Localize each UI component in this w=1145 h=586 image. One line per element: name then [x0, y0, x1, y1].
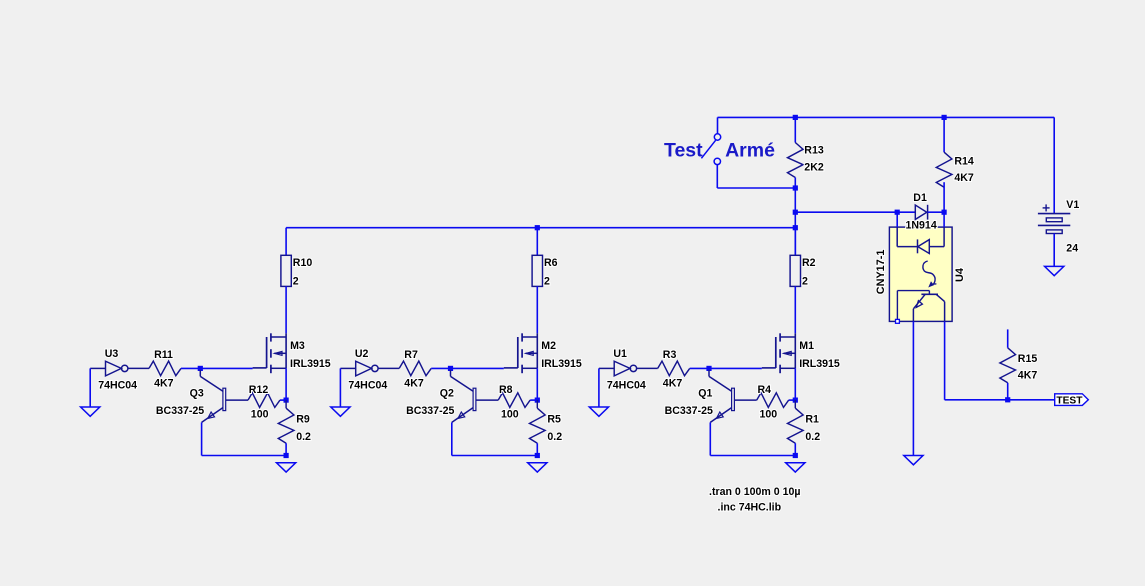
svg-text:BC337-25: BC337-25 [406, 405, 454, 417]
svg-text:100: 100 [251, 409, 269, 421]
svg-text:U3: U3 [105, 348, 119, 360]
svg-text:4K7: 4K7 [663, 377, 683, 389]
svg-text:R8: R8 [499, 384, 513, 396]
svg-text:R9: R9 [296, 414, 310, 426]
svg-text:D1: D1 [913, 192, 927, 204]
svg-text:Q3: Q3 [190, 388, 204, 400]
svg-text:4K7: 4K7 [154, 377, 174, 389]
svg-text:BC337-25: BC337-25 [665, 405, 713, 417]
svg-text:CNY17-1: CNY17-1 [875, 250, 887, 295]
svg-text:Test: Test [664, 140, 703, 162]
svg-text:IRL3915: IRL3915 [799, 358, 840, 370]
svg-text:IRL3915: IRL3915 [541, 358, 582, 370]
svg-text:V1: V1 [1066, 199, 1079, 211]
svg-text:24: 24 [1066, 243, 1078, 255]
svg-text:Q2: Q2 [440, 388, 454, 400]
svg-text:74HC04: 74HC04 [98, 380, 137, 392]
svg-text:0.2: 0.2 [547, 431, 562, 443]
svg-text:R12: R12 [249, 384, 269, 396]
svg-text:U1: U1 [613, 348, 627, 360]
svg-text:4K7: 4K7 [954, 172, 974, 184]
svg-text:R6: R6 [544, 257, 558, 269]
svg-text:U2: U2 [355, 348, 369, 360]
svg-text:74HC04: 74HC04 [348, 380, 387, 392]
svg-text:4K7: 4K7 [404, 377, 424, 389]
svg-text:0.2: 0.2 [296, 431, 311, 443]
svg-text:2K2: 2K2 [804, 162, 824, 174]
svg-text:M3: M3 [290, 340, 305, 352]
svg-text:1N914: 1N914 [906, 219, 937, 231]
svg-text:TEST: TEST [1056, 396, 1083, 407]
svg-text:R1: R1 [805, 414, 819, 426]
svg-text:M1: M1 [799, 340, 814, 352]
svg-text:0.2: 0.2 [805, 431, 820, 443]
svg-text:R5: R5 [547, 414, 561, 426]
svg-text:2: 2 [544, 276, 550, 288]
svg-text:R10: R10 [293, 257, 313, 269]
svg-text:.tran 0 100m 0 10µ: .tran 0 100m 0 10µ [709, 486, 801, 498]
svg-text:Q1: Q1 [698, 388, 712, 400]
svg-text:U4: U4 [954, 268, 966, 282]
svg-text:R3: R3 [663, 349, 677, 361]
svg-text:R13: R13 [804, 145, 824, 157]
svg-text:M2: M2 [541, 340, 556, 352]
svg-text:R14: R14 [954, 155, 974, 167]
svg-text:IRL3915: IRL3915 [290, 358, 331, 370]
svg-text:2: 2 [293, 276, 299, 288]
svg-text:R2: R2 [802, 257, 816, 269]
svg-text:R4: R4 [758, 384, 772, 396]
svg-text:R11: R11 [154, 349, 173, 361]
svg-text:4K7: 4K7 [1018, 369, 1038, 381]
svg-text:R15: R15 [1018, 353, 1038, 365]
svg-text:100: 100 [501, 409, 519, 421]
svg-text:74HC04: 74HC04 [607, 380, 646, 392]
svg-text:100: 100 [760, 409, 778, 421]
svg-text:R7: R7 [404, 349, 418, 361]
svg-text:2: 2 [802, 276, 808, 288]
svg-text:BC337-25: BC337-25 [156, 405, 204, 417]
svg-text:Armé: Armé [725, 140, 775, 162]
svg-text:.inc 74HC.lib: .inc 74HC.lib [718, 502, 782, 514]
